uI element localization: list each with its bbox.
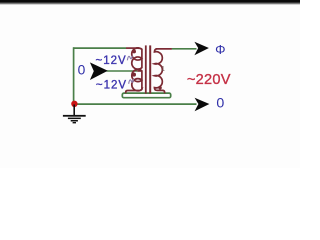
node junction dot (0 rail) — [71, 101, 77, 107]
wire bottom loop rectangle — [122, 93, 170, 98]
ground bar 3 — [71, 120, 78, 122]
transformer T1 core bar right — [149, 45, 151, 93]
ground bar 2 — [68, 118, 81, 120]
svg-text:1: 1 — [161, 66, 165, 73]
arrow terminal phi (secondary top) — [194, 42, 209, 55]
transformer T1 core bar left — [145, 45, 147, 93]
top letterbox bar — [0, 0, 300, 2]
wire top horizontal (green part) — [73, 47, 126, 49]
svg-text:0: 0 — [78, 63, 86, 78]
svg-text:0: 0 — [216, 96, 224, 112]
wire top horizontal (red part into primary) — [126, 47, 139, 49]
transformer T1 primary winding 1 polarity dot — [132, 50, 136, 54]
wire center tap (red part) — [137, 70, 142, 72]
transformer T1 primary winding 1 (top, ~12V) — [132, 48, 142, 69]
transformer T1 secondary winding (~220V) — [154, 49, 171, 94]
ground bar 1 — [63, 115, 86, 117]
svg-text:Φ: Φ — [215, 42, 225, 57]
AC squiggle superscript lower — [129, 79, 134, 84]
ground stem — [73, 105, 75, 116]
svg-text:~12V: ~12V — [96, 80, 127, 92]
arrow terminal 0 (secondary bottom) — [195, 98, 210, 111]
wire secondary top (red part) — [156, 48, 172, 50]
wire bottom main — [75, 103, 197, 105]
wire secondary top (green part) — [172, 48, 197, 50]
AC squiggle superscript upper — [127, 56, 132, 61]
arrow terminal 0 (primary side) — [90, 62, 108, 80]
transformer T1 primary winding 2 (bottom, ~12V) — [126, 69, 142, 93]
wire left vertical — [73, 47, 75, 103]
ground bar 4 — [73, 122, 76, 123]
svg-text:~12V: ~12V — [96, 55, 127, 67]
svg-text:~220V: ~220V — [187, 72, 231, 88]
transformer T1 primary winding 2 polarity dot — [132, 73, 136, 77]
wire center tap (green part) — [107, 70, 138, 72]
transformer T1 secondary polarity dot — [158, 86, 161, 89]
